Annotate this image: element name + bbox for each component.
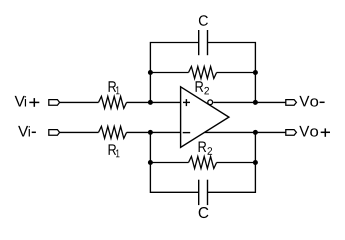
- wire top feedback left vertical: [150, 43, 198, 103]
- wire Vi- to R1: [60, 131, 99, 133]
- junction node op-amp + input: [148, 100, 153, 105]
- label C (top): [199, 15, 208, 25]
- junction node bottom-right R2 branch: [253, 160, 258, 165]
- resistor R2 (bottom): [189, 157, 217, 169]
- wire Vi+ to R1: [60, 101, 99, 103]
- junction node top-left R2 branch: [148, 70, 153, 75]
- capacitor C (top): [199, 30, 208, 55]
- junction node top-right R2 branch: [253, 70, 258, 75]
- label Vo-: [299, 96, 324, 107]
- op-amp U1: [181, 87, 229, 148]
- wire op-amp noninverting output to Vo+: [205, 131, 286, 133]
- label R1 (bottom): [109, 144, 120, 157]
- junction node op-amp - input: [148, 130, 153, 135]
- label C (bottom): [199, 207, 209, 218]
- resistor R1 (top): [99, 96, 127, 108]
- terminal Vi-: [49, 130, 60, 136]
- wire R2 top branch right: [217, 72, 256, 74]
- junction node bottom-left R2 branch: [148, 160, 153, 165]
- wire top feedback right vertical: [208, 43, 256, 103]
- capacitor C (bottom): [199, 180, 208, 205]
- terminal Vo+: [286, 130, 297, 136]
- resistor R1 (bottom): [99, 126, 127, 138]
- wire R2 bottom branch right: [217, 162, 256, 164]
- wire bottom feedback left vertical: [150, 132, 198, 192]
- wire R2 bottom branch left: [150, 162, 188, 164]
- junction node Vo+ output: [253, 130, 258, 135]
- op-amp inverting output bubble: [208, 100, 213, 105]
- resistor R2 (top): [189, 67, 217, 79]
- wire op-amp inverting output to Vo-: [213, 101, 285, 103]
- wire bottom feedback right vertical: [208, 132, 256, 192]
- label Vi+: [15, 96, 40, 107]
- terminal Vo-: [286, 100, 297, 106]
- junction node Vo- output: [253, 100, 258, 105]
- terminal Vi+: [49, 100, 60, 106]
- wire R1 to op-amp noninverting input: [127, 101, 181, 103]
- label Vo+: [299, 126, 330, 137]
- wire R2 top branch left: [150, 72, 188, 74]
- label R2 (bottom): [199, 142, 212, 155]
- label R2 (top): [196, 81, 209, 94]
- label R1 (top): [109, 81, 120, 94]
- label Vi-: [18, 126, 36, 137]
- wire R1 to op-amp inverting input: [127, 131, 181, 133]
